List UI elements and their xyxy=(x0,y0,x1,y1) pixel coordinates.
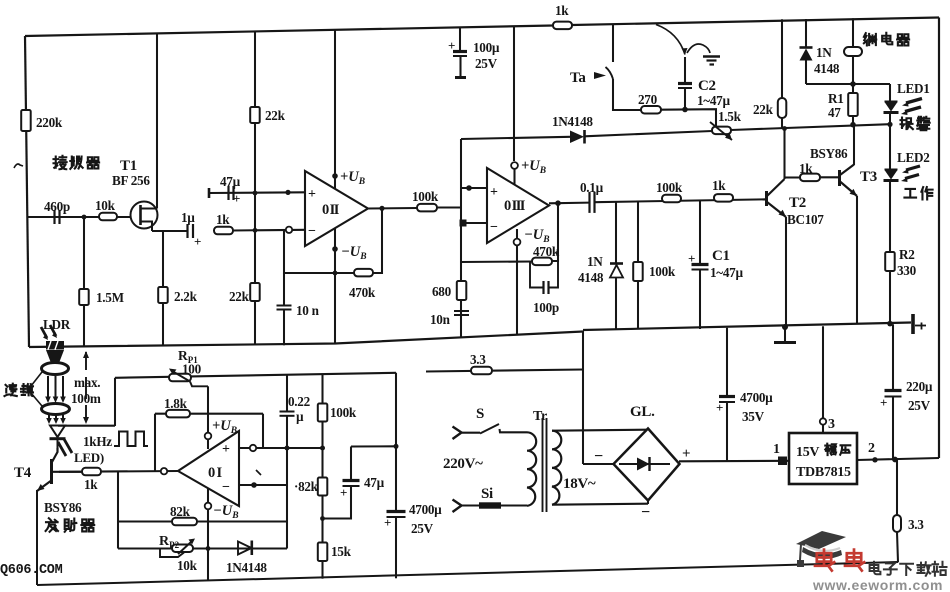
svg-text:max.: max. xyxy=(74,375,100,390)
wire 100k vertical top lead xyxy=(637,201,639,262)
lens 1 xyxy=(42,363,69,375)
svg-text:100p: 100p xyxy=(533,300,559,315)
wire S to transformer primary xyxy=(500,429,528,432)
svg-text:47µ: 47µ xyxy=(220,174,241,189)
relay coil xyxy=(844,47,862,56)
wire 220u to pin2 rail xyxy=(892,397,894,460)
svg-text:1N4148: 1N4148 xyxy=(226,560,267,575)
svg-text:+: + xyxy=(716,400,723,415)
wire RF input / gate of T1 xyxy=(28,216,131,218)
diode 1N4148 (oscillator) xyxy=(238,542,252,555)
svg-text:TDB7815: TDB7815 xyxy=(796,465,851,480)
resistor 1k (T4 base) xyxy=(82,468,101,476)
wire RP2/diode branch xyxy=(118,547,287,549)
svg-text:22k: 22k xyxy=(753,102,774,117)
lens cone upper xyxy=(46,350,64,363)
IC TDB7815 regulator box xyxy=(789,433,857,484)
capacitor 10n (opamp III) xyxy=(454,310,469,312)
wire bridge minus to riser xyxy=(583,463,614,465)
svg-text:C2: C2 xyxy=(698,78,716,94)
svg-text:15k: 15k xyxy=(331,544,352,559)
wire 47u top link xyxy=(351,445,396,447)
potentiometer RP2 body xyxy=(172,545,193,553)
resistor 680 xyxy=(457,281,467,300)
wire 1N4148 relay top lead xyxy=(805,19,807,48)
terminal S (mains) xyxy=(453,427,462,440)
capacitor 100u electrolytic xyxy=(453,50,467,53)
resistor 470k (opamp III feedback) xyxy=(532,258,552,266)
wire -UB opamp III to ground bus xyxy=(516,229,518,335)
resistor 15k xyxy=(318,543,328,562)
capacitor 0.1u xyxy=(588,192,590,213)
wire pin3 to regulator box xyxy=(822,425,824,433)
svg-text:R2: R2 xyxy=(899,247,915,262)
svg-text:LED1: LED1 xyxy=(897,81,930,96)
LED (transmitter) xyxy=(50,426,65,438)
wire relay node horizontal xyxy=(806,83,890,85)
svg-text:R1: R1 xyxy=(828,91,844,106)
junction stub/ground bus xyxy=(782,324,788,330)
wire 270 to C2 node and down to pot xyxy=(661,109,716,130)
RP2 wiper arrow xyxy=(178,542,191,554)
svg-text:T2: T2 xyxy=(789,195,806,211)
wire pot to relay/LED1 node xyxy=(731,124,890,130)
wire T3 emitter to ground bus xyxy=(856,196,858,324)
capacitor 47u with stub terminal xyxy=(208,188,211,198)
wire opamp III output xyxy=(549,202,589,205)
wire rail down to 4700u 25V xyxy=(395,373,397,511)
capacitor 460p xyxy=(53,210,55,224)
svg-text:4700µ: 4700µ xyxy=(740,390,773,405)
svg-text:+: + xyxy=(233,191,240,206)
wire mid ground bus left xyxy=(29,332,583,348)
wire rectifier minus riser xyxy=(582,331,584,464)
wire +UB opamp III from top bus xyxy=(513,26,515,161)
svg-text:0 I: 0 I xyxy=(208,465,222,481)
wire 4700u 25V to bottom border xyxy=(395,517,397,578)
wire opamp I non-inverting input rail xyxy=(239,447,323,449)
svg-text:22k: 22k xyxy=(229,289,250,304)
resistor 1.8k xyxy=(166,410,190,418)
capacitor 4700u 25V xyxy=(387,510,406,513)
svg-text:270: 270 xyxy=(638,92,658,107)
svg-text:+: + xyxy=(448,38,455,53)
wire top supply bus right segment xyxy=(572,18,939,26)
wire -UB opamp I to bottom border xyxy=(207,488,209,581)
wire 2.2k to ground bus xyxy=(162,303,164,346)
resistor 100k (interstage) xyxy=(417,204,437,212)
svg-text:1.8k: 1.8k xyxy=(164,396,188,411)
wire opamp I inverting input xyxy=(239,484,287,486)
wire T3 collector xyxy=(853,125,855,165)
resistor 100k (vertical) xyxy=(633,262,643,281)
junction RP2 branch/-UB column xyxy=(206,546,211,551)
svg-text:100µ: 100µ xyxy=(473,40,500,55)
svg-text:47µ: 47µ xyxy=(364,475,385,490)
wire +UB opamp II from top bus xyxy=(334,31,336,190)
beam arrows to LED xyxy=(48,415,50,422)
svg-text:·82k: ·82k xyxy=(294,479,319,494)
junction 0.22u column/+input xyxy=(285,446,290,451)
wire Ta to 270 xyxy=(613,79,641,110)
svg-text:3: 3 xyxy=(828,417,835,432)
wire 100u from top bus xyxy=(459,27,461,51)
wire 3.3 feed xyxy=(426,370,583,372)
node circle -UB opamp III xyxy=(514,239,521,246)
op-amp U3 (0 III) xyxy=(487,168,549,243)
wire T2 emitter to ground bus xyxy=(785,217,787,328)
label transmitter (fasheqi) xyxy=(46,518,58,532)
resistor R1 47 xyxy=(848,93,858,116)
svg-text:1.5M: 1.5M xyxy=(96,290,125,305)
switch S blade xyxy=(480,424,499,434)
label lens (toujing) xyxy=(4,384,16,396)
svg-text:µ: µ xyxy=(296,409,304,424)
wire 4700u35V to +DC rail xyxy=(726,402,728,461)
wire fuse to transformer primary xyxy=(501,504,527,506)
svg-text:C1: C1 xyxy=(712,248,730,264)
node circle -UB opamp I xyxy=(205,503,212,510)
label working (gongzuo) xyxy=(904,189,916,198)
svg-text:100k: 100k xyxy=(330,405,357,420)
wire 0.22u upper lead xyxy=(286,375,288,412)
wire 22k (relay) top lead xyxy=(781,19,783,98)
op-amp U2 (0 II) xyxy=(305,171,368,246)
LED LED1 xyxy=(885,101,898,103)
wire 47u to opamp II non-inverting input xyxy=(209,191,305,194)
svg-text:LDR: LDR xyxy=(43,317,71,332)
diode 1N4148 (mid, vertical) xyxy=(610,262,623,265)
wire 82k feedback branch xyxy=(118,520,287,522)
svg-text:Ta: Ta xyxy=(570,70,586,86)
wire R1 top lead xyxy=(852,84,854,93)
pin1 square node xyxy=(778,457,787,466)
svg-text:25V: 25V xyxy=(908,398,931,413)
junction divider/+input xyxy=(320,446,325,451)
potentiometer RP1 100 body xyxy=(169,374,191,382)
wire opamp III non-inverting input xyxy=(461,187,487,189)
wire left feedback column xyxy=(117,472,119,549)
capacitor 100p loop xyxy=(530,262,543,288)
bridge rectifier GL xyxy=(614,429,680,501)
svg-text:+: + xyxy=(222,442,230,457)
junction C2 bottom xyxy=(682,107,688,113)
LED1 emission arrows xyxy=(906,99,922,104)
svg-text:0 II: 0 II xyxy=(322,202,340,218)
svg-text:3.3: 3.3 xyxy=(470,352,486,367)
wire 1.8k left leg to output xyxy=(154,414,156,471)
svg-text:1µ: 1µ xyxy=(181,210,195,225)
svg-text:1k: 1k xyxy=(84,477,98,492)
svg-text:www.eeworm.com: www.eeworm.com xyxy=(812,577,943,592)
wire LED1 anode lead xyxy=(889,84,891,101)
junction gate/1.5M xyxy=(82,215,87,220)
wire feedback loop opamp II xyxy=(284,208,382,273)
svg-text:−: − xyxy=(594,448,603,465)
wire S terminal lead xyxy=(462,432,480,434)
wire 15k to bottom border xyxy=(321,561,323,579)
wire opamp I output to T4 base xyxy=(59,470,178,473)
svg-text:1.5k: 1.5k xyxy=(718,109,742,124)
watermark chongchong red xyxy=(815,550,834,571)
resistor 2.2k xyxy=(158,287,168,303)
svg-text:+: + xyxy=(384,515,391,530)
resistor 100k (divider) xyxy=(318,404,328,422)
node circle +UB opamp III xyxy=(511,162,518,169)
wire 1N4148 relay bottom lead xyxy=(805,61,807,85)
svg-text:Si: Si xyxy=(481,486,493,502)
resistor 3.3 (right) xyxy=(893,515,901,532)
resistor 470k (opamp II feedback) xyxy=(354,269,373,277)
transistor T2 BC107 xyxy=(765,191,768,206)
svg-text:BSY86: BSY86 xyxy=(810,146,848,161)
junction 22k/1k wire xyxy=(253,228,258,233)
pointer lines from lens label xyxy=(31,372,42,386)
capacitor 100p plates xyxy=(542,281,544,294)
resistor 82k (feedback) xyxy=(172,518,197,526)
wire opamp III top feedback left xyxy=(461,137,570,139)
svg-text:10k: 10k xyxy=(95,198,116,213)
wire bottom border xyxy=(37,562,898,585)
wire stub below bus xyxy=(784,327,786,341)
wire 3.3 branch upper xyxy=(896,460,898,516)
junction 47u link/rail xyxy=(394,444,399,449)
svg-text:10n: 10n xyxy=(430,312,451,327)
junction R2/ground bus xyxy=(887,321,893,327)
potentiometer 1.5k body xyxy=(712,127,731,135)
wire 220u top lead xyxy=(892,324,894,390)
wire 0.1u to T2 base chain xyxy=(595,199,767,202)
junction feedback/-UB wire xyxy=(333,271,338,276)
fuse Si xyxy=(479,502,501,508)
svg-text:100k: 100k xyxy=(649,264,676,279)
wire secondary top to bridge xyxy=(552,430,647,431)
wire right border xyxy=(938,18,940,459)
junction output/feedback opamp III xyxy=(555,200,561,206)
svg-text:−: − xyxy=(308,224,316,239)
svg-text:470k: 470k xyxy=(349,285,376,300)
wire Ta switch upper lead xyxy=(612,24,614,62)
svg-text:+: + xyxy=(682,446,690,462)
transistor T4 BSY86 xyxy=(50,459,53,484)
wire 1.5M to ground bus xyxy=(83,305,85,347)
svg-text:LED2: LED2 xyxy=(897,150,930,165)
svg-text:460p: 460p xyxy=(44,199,70,214)
svg-text:1N: 1N xyxy=(816,45,832,60)
svg-text:+: + xyxy=(490,185,498,200)
svg-text:1kHz: 1kHz xyxy=(83,434,112,449)
svg-text:18V~: 18V~ xyxy=(563,476,596,492)
switch Ta contact arrow xyxy=(594,72,606,79)
wire regulator pin3 to ground bus xyxy=(822,326,824,418)
resistor R2 330 xyxy=(885,252,895,271)
label receiver (jieshouqi) xyxy=(54,156,67,170)
junction T2 collector/pot wire xyxy=(782,126,787,131)
junction LED1/wire xyxy=(887,122,892,127)
transformer Tr primary winding xyxy=(527,432,536,505)
wire 47u bottom to divider xyxy=(323,486,352,519)
resistor 270 xyxy=(641,106,661,114)
resistor 22k (relay branch) xyxy=(778,98,787,118)
capacitor 47u (oscillator) xyxy=(343,479,360,482)
svg-text:+: + xyxy=(308,187,316,202)
wire 2.2k top lead xyxy=(162,231,164,287)
wire C1 top lead xyxy=(699,200,701,264)
resistor 22k (upper) xyxy=(250,107,260,123)
svg-text:1N4148: 1N4148 xyxy=(552,114,593,129)
diode 1N4148 (relay freewheel) xyxy=(800,46,813,49)
wire 1.5M top lead xyxy=(83,217,85,289)
junction + input opamp III xyxy=(466,185,472,191)
watermark graduation cap xyxy=(796,531,846,549)
svg-text:−: − xyxy=(490,220,498,235)
wire T4 base xyxy=(52,471,82,473)
wire 1.8k branch xyxy=(155,413,263,415)
svg-text:Q606.COM: Q606.COM xyxy=(0,563,63,578)
wire 1.8k right leg to + input xyxy=(262,414,264,448)
watermark site name xyxy=(870,562,881,574)
svg-text:4148: 4148 xyxy=(578,270,604,285)
resistor 22k (lower) xyxy=(250,283,260,301)
svg-text:15V: 15V xyxy=(796,445,819,460)
svg-text:BC107: BC107 xyxy=(787,212,824,227)
node circle + input opamp I xyxy=(250,445,256,451)
transformer Tr core xyxy=(542,418,544,512)
svg-text:BF 256: BF 256 xyxy=(112,173,150,188)
wire 1N4148 mid top lead xyxy=(615,202,617,264)
svg-text:1: 1 xyxy=(773,442,780,457)
wire 47u upper lead xyxy=(350,447,352,481)
wire 0.22u / feedback column xyxy=(286,416,288,549)
photoresistor LDR xyxy=(46,341,64,350)
svg-text:35V: 35V xyxy=(742,409,765,424)
svg-text:470k: 470k xyxy=(533,244,560,259)
wire opamp III input node vertical xyxy=(460,139,462,338)
wire 100k vertical to ground bus xyxy=(637,281,639,330)
wire Si terminal lead xyxy=(462,504,479,506)
wire bridge + to regulator pin1 xyxy=(679,460,789,463)
svg-text:1~47µ: 1~47µ xyxy=(697,93,730,108)
wire divider to 15k xyxy=(321,496,323,543)
RP1 wiper arrow xyxy=(173,372,190,382)
junction on pin2 wire xyxy=(872,457,877,462)
ground symbol (C2 discharge) xyxy=(703,55,720,57)
wire T1 drain to top bus xyxy=(156,33,158,209)
svg-text:220k: 220k xyxy=(36,115,63,130)
svg-text:3.3: 3.3 xyxy=(908,517,924,532)
capacitor 220u 25V xyxy=(885,389,902,392)
wire RP1 tap to +UB opamp I xyxy=(207,386,209,449)
junction pin2/3.3 branch xyxy=(892,457,898,463)
wire R2 to ground bus xyxy=(889,271,891,324)
square node on - input opamp III xyxy=(460,220,467,227)
label alarm (baojing) xyxy=(901,118,913,130)
resistor 1k (T3 base) xyxy=(800,174,820,182)
svg-text:BSY86: BSY86 xyxy=(44,500,82,515)
wire 4700u35V top lead xyxy=(726,328,728,396)
svg-text:0 III: 0 III xyxy=(504,198,526,214)
wire C1 to ground bus xyxy=(699,270,701,330)
capacitor 4700u 35V xyxy=(719,395,735,398)
svg-text:4700µ: 4700µ xyxy=(409,502,442,517)
wire secondary bottom to bridge xyxy=(552,504,648,505)
square wave symbol xyxy=(114,432,148,447)
svg-text:47: 47 xyxy=(828,105,841,120)
node circle on - input wire xyxy=(286,227,292,233)
capacitor C1 electrolytic xyxy=(692,263,709,266)
node circle pin 3 xyxy=(820,418,826,424)
wire oscillator supply rail (RP1 rail) xyxy=(115,373,396,378)
svg-text:220µ: 220µ xyxy=(906,379,933,394)
node dot - input opamp I xyxy=(251,482,257,488)
wire 470k feedback right up to output xyxy=(552,204,558,262)
wire LED1 cathode to LED2 xyxy=(889,125,891,169)
light arrows onto LDR xyxy=(41,327,47,338)
svg-text:680: 680 xyxy=(432,284,452,299)
op-amp U1 (0 I) xyxy=(178,431,239,506)
wire relay coil bottom lead xyxy=(852,56,854,84)
svg-text:LED): LED) xyxy=(74,450,104,465)
svg-text:1k: 1k xyxy=(555,3,569,18)
wire 100k divider top lead xyxy=(321,374,323,404)
wire T2 collector to node xyxy=(783,129,785,179)
wire mid ground bus right xyxy=(583,323,911,331)
wire relay coil top lead xyxy=(852,18,854,47)
wire 22k chain down to ground bus xyxy=(254,123,256,345)
wire C2 bottom lead xyxy=(684,88,686,110)
resistor 220k xyxy=(21,110,31,131)
svg-text:220V~: 220V~ xyxy=(443,456,483,472)
node -UB opamp II xyxy=(332,246,338,252)
node circle +UB opamp I xyxy=(205,433,212,440)
wire 470k feedback left xyxy=(461,260,532,263)
terminal Si (mains) xyxy=(453,500,462,513)
junction R1/T3 collector xyxy=(850,122,856,128)
svg-text:+: + xyxy=(688,251,695,266)
resistor 100k (T2 drive) xyxy=(662,195,681,203)
svg-text:−: − xyxy=(222,480,230,495)
diode 1N4148 (top, horizontal) xyxy=(570,131,584,144)
wire 100u lower lead xyxy=(459,56,461,76)
svg-text:+: + xyxy=(340,485,347,500)
svg-text:1k: 1k xyxy=(712,178,726,193)
wire T4 emitter down to bottom border xyxy=(36,490,38,585)
capacitor 0.22u xyxy=(280,411,295,413)
RP2 under-tail xyxy=(160,550,184,558)
wire 10n to ground bus xyxy=(283,310,285,346)
transformer Tr secondary winding xyxy=(552,431,561,505)
wire diode to 1.5k pot xyxy=(585,131,713,136)
svg-text:82k: 82k xyxy=(170,504,191,519)
resistor 1k (top supply) xyxy=(553,22,572,30)
svg-text:2.2k: 2.2k xyxy=(174,289,198,304)
svg-text:2: 2 xyxy=(868,441,875,456)
svg-text:T1: T1 xyxy=(120,158,137,174)
stray tick mark xyxy=(256,470,261,475)
svg-text:100k: 100k xyxy=(656,180,683,195)
svg-text:S: S xyxy=(476,406,484,422)
svg-text:GL.: GL. xyxy=(630,404,655,420)
beam arrows between lenses xyxy=(47,376,49,398)
junction relay/R1 xyxy=(850,81,856,87)
svg-text:Tr: Tr xyxy=(533,409,547,424)
distance arrow max 100m xyxy=(85,352,87,419)
svg-text:10 n: 10 n xyxy=(296,303,320,318)
wire divider mid xyxy=(321,422,323,478)
wire LED2 to R2 xyxy=(889,181,891,252)
svg-text:330: 330 xyxy=(897,263,917,278)
wire 22k to node xyxy=(781,118,783,129)
